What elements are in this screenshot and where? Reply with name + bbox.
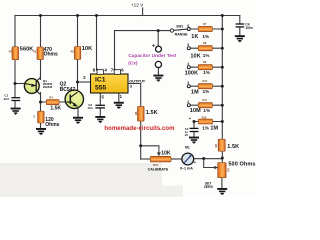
switch throw contact 4 [187, 66, 190, 69]
ground under 555 pin1 [114, 102, 124, 109]
svg-text:1M: 1M [191, 89, 199, 95]
svg-text:0–1 mA: 0–1 mA [180, 167, 193, 171]
wire C4 drop [239, 16, 241, 36]
transistor Q2 BC547 [65, 90, 83, 108]
ground under C1 [11, 108, 21, 115]
capacitor C1 3n3 [11, 98, 20, 101]
wire Cx top terminal drop [157, 31, 159, 46]
wire 555 pin5 to C2 [99, 93, 101, 116]
resistor R9 100K [198, 65, 212, 70]
svg-text:1%: 1% [203, 89, 210, 94]
resistor R10 1M [198, 84, 212, 89]
wire set-zero pot to ground [221, 178, 223, 189]
svg-text:+: + [152, 44, 155, 50]
ground under C4 [235, 35, 245, 42]
wire left drop to Q1 emitter node [14, 16, 16, 84]
svg-text:1.5K: 1.5K [50, 106, 61, 112]
svg-text:ZERO: ZERO [204, 185, 214, 189]
svg-text:R12: R12 [202, 115, 207, 119]
wire OUTPUT pin3 to R5 [128, 84, 141, 107]
wire pin7 to range switch pole [115, 30, 171, 32]
wire R6 bottom to set-zero pot [221, 151, 223, 163]
svg-text:555: 555 [95, 85, 107, 92]
wire meter to R6/set-zero node [194, 158, 223, 160]
svg-text:1M: 1M [210, 126, 218, 132]
svg-text:SW1: SW1 [176, 24, 183, 28]
wire C3 column [193, 122, 195, 137]
switch SW1 pole contact [170, 29, 173, 32]
ground under C3 [189, 137, 199, 144]
wire row4 R10 [190, 85, 222, 87]
svg-text:3: 3 [187, 81, 189, 85]
wire row1 R7 [190, 28, 222, 30]
svg-text:3n3: 3n3 [4, 97, 10, 101]
wire 555 pin7 riser [114, 31, 116, 70]
switch throw contact 5 [187, 47, 190, 50]
svg-text:(Cx): (Cx) [128, 60, 138, 66]
wire Q1 emitter [15, 83, 25, 85]
wire 555 pin2 to Q2 collector [78, 81, 91, 83]
resistor R4 1.5K horizontal [46, 100, 59, 105]
wire 470-ohm / Q1 base2-base1 / R3 column [40, 16, 42, 129]
svg-text:R7: R7 [203, 22, 207, 26]
svg-text:RANGE: RANGE [175, 33, 189, 37]
op-amp timer IC1 555 [91, 70, 129, 93]
svg-text:10n: 10n [87, 106, 92, 110]
resistor R7 1K [198, 26, 212, 31]
svg-text:5: 5 [187, 43, 189, 47]
resistor R8 10K [198, 46, 212, 51]
switch throw contact 3 [187, 85, 190, 88]
svg-text:1%: 1% [203, 53, 210, 58]
svg-text:1K: 1K [191, 34, 198, 40]
wire 555 pin1 to ground [118, 93, 120, 102]
svg-text:100n: 100n [245, 26, 252, 30]
svg-text:R3: R3 [71, 49, 75, 53]
svg-text:R5: R5 [134, 111, 138, 115]
svg-text:6: 6 [187, 24, 189, 28]
potentiometer 10K CALIBRATE [150, 146, 171, 162]
svg-text:1%: 1% [203, 108, 210, 113]
resistor 120 Ohms [38, 111, 45, 123]
svg-text:R7: R7 [227, 168, 231, 172]
ground under Q2 [73, 117, 83, 124]
svg-text:Ohms: Ohms [44, 51, 58, 57]
svg-text:100K: 100K [185, 70, 199, 76]
ground under set-zero pot [217, 188, 227, 195]
svg-text:R6: R6 [214, 144, 218, 148]
resistor R5 1.5K vertical [138, 106, 145, 121]
svg-text:1.5K: 1.5K [227, 144, 239, 150]
svg-text:RV1: RV1 [153, 163, 159, 167]
wire R4 base link [41, 101, 67, 103]
svg-text:1%: 1% [202, 126, 209, 131]
svg-text:Ohms: Ohms [45, 122, 59, 128]
svg-text:10K: 10K [190, 53, 200, 59]
resistor R12 1M [198, 119, 212, 124]
svg-text:BC547: BC547 [60, 87, 76, 93]
svg-text:+12 V: +12 V [131, 2, 144, 7]
svg-text:4: 4 [187, 62, 189, 66]
ground under R3 [36, 128, 46, 135]
wire row5 R11 [190, 104, 222, 106]
svg-text:R11: R11 [202, 98, 207, 102]
Cx top terminal [156, 46, 162, 52]
svg-text:10K: 10K [82, 46, 92, 52]
capacitor C4 100n [236, 24, 245, 27]
svg-text:2: 2 [187, 100, 189, 104]
wire calibrate pot to meter [171, 158, 182, 160]
Cx bottom terminal [155, 61, 161, 67]
wire +12V top rail [15, 15, 240, 17]
capacitor C2 10n [95, 105, 105, 108]
wire set-zero wiper [204, 159, 215, 168]
svg-text:IC1: IC1 [95, 77, 106, 84]
wire calibrate wiper feed [141, 145, 159, 147]
wire C1 drop [14, 84, 16, 108]
switch throw contact 2 [187, 104, 190, 107]
resistor R3 10K [74, 47, 80, 60]
svg-text:1.5K: 1.5K [146, 110, 158, 116]
capacitor C3 1u [190, 128, 199, 131]
wire Q2 emitter to ground [77, 108, 79, 117]
svg-text:R10: R10 [202, 79, 207, 83]
svg-text:560K: 560K [20, 47, 34, 53]
svg-text:M1: M1 [185, 145, 190, 149]
wire row3 R9 [190, 66, 222, 68]
svg-text:R4: R4 [49, 95, 53, 99]
svg-text:homemade-circuits.com: homemade-circuits.com [104, 126, 174, 132]
resistor R1 560K [12, 47, 19, 60]
svg-text:10K: 10K [161, 151, 171, 157]
svg-text:R9: R9 [203, 60, 207, 64]
svg-text:Capacitor Under Test: Capacitor Under Test [128, 53, 177, 59]
wire row6 R12 [194, 121, 222, 123]
wire 555 pin8 riser [96, 16, 98, 71]
svg-text:R1: R1 [9, 49, 13, 53]
wire range bus [221, 16, 223, 140]
svg-text:R8: R8 [203, 41, 207, 45]
svg-text:500 Ohms: 500 Ohms [228, 162, 255, 168]
svg-text:25: 25 [185, 133, 189, 137]
wire 10K / Q2 collector column [77, 16, 79, 91]
wire R5 bottom drop to calibrate pot [140, 121, 142, 159]
svg-text:1%: 1% [203, 70, 210, 75]
page gray band bottom-left [0, 164, 183, 198]
transistor Q1 2N2646 [24, 78, 40, 95]
svg-text:CALIBRATE: CALIBRATE [148, 167, 169, 171]
switch SW1 arm [174, 29, 188, 30]
switch throw contact 6 [187, 28, 190, 31]
wire row2 R8 [190, 47, 222, 49]
resistor R6 1.5K bus [218, 139, 225, 151]
ground under Cx terminal [153, 75, 163, 82]
wire calibrate pot left lead [141, 158, 151, 160]
resistor R2 470 Ohms [37, 47, 43, 60]
svg-text:R2: R2 [33, 49, 37, 53]
wire Cx bottom terminal to ground [157, 68, 159, 75]
meter M1 0-1 mA [182, 153, 194, 165]
wire +12V tick [142, 8, 144, 16]
ground under C2 [95, 116, 105, 123]
svg-text:2N2646: 2N2646 [43, 85, 53, 89]
svg-text:1%: 1% [202, 34, 209, 39]
svg-text:10M: 10M [190, 108, 201, 114]
resistor R11 10M [198, 103, 212, 108]
potentiometer 500 Ohms SET ZERO [214, 163, 227, 178]
